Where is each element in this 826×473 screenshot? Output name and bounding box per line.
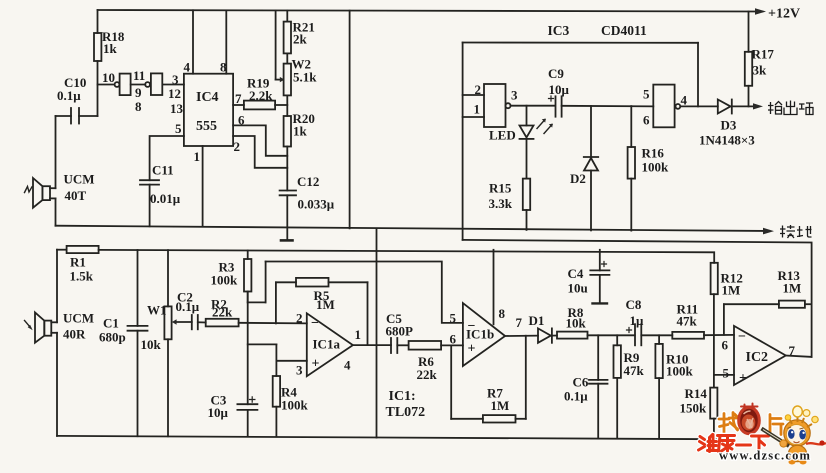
wire IC2 pin5 bbox=[714, 374, 734, 376]
svg-text:8: 8 bbox=[499, 306, 506, 321]
svg-text:UCM: UCM bbox=[63, 311, 94, 326]
label R9 value bbox=[624, 350, 645, 378]
wire left rail lower bbox=[55, 198, 57, 225]
wire gate1 output bbox=[511, 105, 555, 107]
resistor R9 bbox=[614, 335, 621, 438]
svg-text:8: 8 bbox=[135, 99, 142, 114]
capacitor C10 bbox=[56, 108, 98, 124]
svg-text:6: 6 bbox=[722, 338, 729, 353]
resistor R6 bbox=[409, 341, 463, 350]
svg-text:1.5k: 1.5k bbox=[70, 269, 94, 284]
wire IC1a out bbox=[353, 344, 391, 346]
label R7 value bbox=[487, 386, 509, 414]
gate IC3b bbox=[653, 85, 680, 128]
svg-text:UCM: UCM bbox=[64, 172, 95, 187]
svg-text:+: + bbox=[739, 371, 747, 386]
svg-text:40R: 40R bbox=[63, 327, 86, 342]
gate IC3a bbox=[484, 84, 511, 127]
svg-text:1k: 1k bbox=[103, 41, 118, 56]
diode D3 bbox=[718, 100, 763, 114]
label D3 value bbox=[699, 118, 755, 148]
svg-text:1μ: 1μ bbox=[630, 313, 645, 328]
wire IC3 feedback bbox=[463, 42, 698, 44]
wire output net B bbox=[463, 240, 812, 357]
wire IC4 pin7 bbox=[233, 104, 244, 106]
gate G4 bubble bbox=[145, 82, 150, 87]
svg-text:2: 2 bbox=[475, 82, 482, 97]
capacitor C1 bbox=[128, 250, 148, 436]
label R11 value bbox=[677, 302, 699, 329]
label W2 value bbox=[292, 57, 318, 85]
svg-text:C12: C12 bbox=[297, 174, 319, 189]
label R4 value bbox=[281, 385, 309, 413]
svg-text:680p: 680p bbox=[99, 330, 126, 345]
svg-text:3: 3 bbox=[172, 72, 179, 87]
svg-text:47k: 47k bbox=[677, 314, 698, 329]
wire IC1b pin8 bbox=[493, 250, 495, 324]
svg-text:100k: 100k bbox=[281, 398, 309, 413]
svg-text:7: 7 bbox=[235, 91, 242, 106]
resistor R18 bbox=[94, 10, 101, 116]
label IC3 name bbox=[548, 23, 648, 38]
capacitor C11 bbox=[140, 180, 159, 226]
wire IC4 pin8 bbox=[225, 10, 227, 73]
wire bottom left edge lower bbox=[56, 333, 58, 436]
label R8 value bbox=[566, 305, 587, 331]
resistor R14 bbox=[710, 375, 717, 439]
svg-text:1: 1 bbox=[194, 149, 201, 164]
label R1 value bbox=[70, 255, 94, 284]
svg-text:1: 1 bbox=[474, 102, 481, 117]
svg-text:−: − bbox=[738, 330, 746, 345]
label C1 value bbox=[99, 316, 126, 345]
capacitor C12 bbox=[280, 191, 296, 241]
wire bottom ground rail bbox=[57, 436, 716, 439]
wire feedback vertical bbox=[697, 43, 699, 107]
svg-text:10u: 10u bbox=[568, 281, 588, 296]
capacitor C6 bbox=[589, 335, 608, 438]
diode D2 bbox=[584, 106, 598, 230]
label C5 value bbox=[386, 311, 414, 339]
label IC1b pins bbox=[450, 306, 523, 357]
svg-text:100k: 100k bbox=[211, 273, 239, 288]
wire left rail upper bbox=[55, 116, 57, 188]
op-amp IC2 bbox=[734, 326, 786, 385]
svg-text:3k: 3k bbox=[753, 63, 768, 78]
svg-text:TL072: TL072 bbox=[386, 405, 426, 420]
svg-text:100k: 100k bbox=[666, 364, 694, 379]
resistor R16 bbox=[628, 106, 635, 231]
resistor R20 bbox=[284, 116, 291, 191]
gate G3 bbox=[120, 74, 131, 96]
resistor R8 bbox=[557, 332, 635, 339]
diode D1 bbox=[538, 328, 557, 342]
label R16 value bbox=[642, 146, 670, 175]
wire IC4 pin4 bbox=[192, 10, 194, 73]
svg-text:R16: R16 bbox=[642, 146, 665, 161]
wire IC1b out bbox=[505, 335, 538, 337]
wire pin3 jog bbox=[248, 344, 307, 376]
label C3 value bbox=[208, 393, 229, 421]
svg-text:12: 12 bbox=[168, 86, 181, 101]
capacitor C8 bbox=[627, 324, 673, 345]
label R14 value bbox=[680, 386, 708, 416]
svg-text:5.1k: 5.1k bbox=[293, 70, 317, 85]
node 输出端 label bbox=[768, 101, 813, 116]
svg-text:−: − bbox=[311, 316, 319, 331]
svg-text:D3: D3 bbox=[721, 118, 737, 133]
svg-text:1N4148×3: 1N4148×3 bbox=[699, 133, 755, 148]
svg-text:2.2k: 2.2k bbox=[249, 88, 273, 103]
svg-text:C8: C8 bbox=[626, 297, 642, 312]
svg-text:C6: C6 bbox=[573, 375, 589, 390]
label C11 value bbox=[150, 163, 181, 207]
svg-text:www.dzsc.com: www.dzsc.com bbox=[719, 449, 811, 463]
svg-text:10: 10 bbox=[102, 70, 115, 85]
svg-text:13: 13 bbox=[170, 101, 184, 116]
wire gate1 inputs bbox=[463, 43, 484, 240]
svg-text:+12V: +12V bbox=[768, 7, 800, 22]
capacitor C2 bbox=[192, 315, 206, 329]
label UCM40T bbox=[64, 172, 95, 204]
label R5 value bbox=[314, 288, 335, 312]
label IC1 type bbox=[386, 389, 426, 420]
svg-text:2: 2 bbox=[296, 311, 303, 326]
label UCM40R bbox=[63, 311, 94, 342]
svg-text:R17: R17 bbox=[752, 47, 775, 62]
label R21 value bbox=[293, 20, 315, 47]
wire box right edge bbox=[349, 11, 351, 229]
resistor R5 bbox=[276, 278, 368, 345]
capacitor C3 bbox=[237, 397, 257, 436]
node 接地 label bbox=[780, 225, 812, 238]
svg-text:D2: D2 bbox=[570, 171, 586, 186]
svg-text:7: 7 bbox=[516, 315, 523, 330]
label R10 value bbox=[666, 352, 694, 379]
svg-text:11: 11 bbox=[133, 68, 145, 83]
svg-text:6: 6 bbox=[643, 113, 650, 128]
svg-text:1k: 1k bbox=[293, 124, 308, 139]
resistor R12 bbox=[711, 263, 718, 375]
svg-text:1: 1 bbox=[355, 327, 362, 342]
svg-text:6: 6 bbox=[238, 113, 245, 128]
svg-text:IC1b: IC1b bbox=[466, 327, 494, 342]
op-amp IC1b bbox=[463, 303, 505, 366]
svg-text:10k: 10k bbox=[141, 337, 162, 352]
op-amp IC1a bbox=[307, 313, 353, 376]
wire R3 down bbox=[247, 292, 249, 405]
label W1 value bbox=[141, 303, 167, 353]
svg-text:10μ: 10μ bbox=[549, 82, 570, 97]
gate G4 bbox=[151, 73, 162, 95]
svg-text:IC2: IC2 bbox=[746, 350, 769, 365]
watermark mascot bbox=[762, 406, 826, 465]
wire +12V top rail bbox=[98, 8, 767, 15]
svg-text:10μ: 10μ bbox=[208, 405, 229, 420]
label IC4 name bbox=[196, 90, 219, 134]
svg-text:R15: R15 bbox=[489, 181, 512, 196]
label R3 value bbox=[211, 260, 239, 288]
svg-text:0.1μ: 0.1μ bbox=[564, 389, 588, 404]
LED bbox=[520, 106, 553, 179]
wire bottom left edge upper bbox=[56, 250, 58, 323]
label R17 value bbox=[752, 47, 775, 78]
wire gate chain bbox=[98, 84, 184, 86]
svg-text:5: 5 bbox=[175, 121, 182, 136]
potentiometer W2 bbox=[284, 64, 291, 116]
svg-text:W1: W1 bbox=[147, 303, 167, 318]
svg-text:1M: 1M bbox=[491, 398, 510, 413]
capacitor C5 bbox=[391, 338, 409, 353]
resistor R15 bbox=[523, 179, 530, 230]
capacitor C9 bbox=[549, 96, 562, 117]
svg-text:3: 3 bbox=[296, 363, 303, 378]
label R12 value bbox=[721, 271, 743, 298]
svg-text:8: 8 bbox=[220, 60, 227, 75]
resistor R13 bbox=[724, 301, 812, 335]
wire IC4 pin5 bbox=[150, 136, 184, 180]
wire ground interlink bbox=[376, 229, 378, 438]
watermark text 找芯片 bbox=[719, 413, 783, 435]
svg-text:R1: R1 bbox=[70, 255, 86, 270]
svg-text:7: 7 bbox=[789, 343, 796, 358]
wire gate2 output bbox=[680, 105, 718, 107]
svg-text:1M: 1M bbox=[316, 297, 335, 312]
label IC1a pins bbox=[296, 311, 361, 378]
label C12 value bbox=[297, 174, 335, 212]
label R20 value bbox=[293, 111, 315, 139]
svg-text:0.1μ: 0.1μ bbox=[57, 88, 81, 103]
svg-text:0.01μ: 0.01μ bbox=[150, 191, 181, 206]
svg-text:10k: 10k bbox=[566, 316, 587, 331]
svg-text:47k: 47k bbox=[624, 363, 645, 378]
resistor R17 bbox=[745, 12, 752, 107]
svg-text:CD4011: CD4011 bbox=[601, 23, 647, 38]
svg-text:0.1μ: 0.1μ bbox=[176, 299, 200, 314]
wire IC4 pin2 bbox=[233, 136, 287, 168]
transducer UCM40R bbox=[25, 312, 58, 342]
wire bias net bbox=[248, 262, 463, 323]
label C9 value bbox=[548, 66, 570, 97]
label C10 value bbox=[57, 75, 86, 103]
wire W2 wiper bbox=[276, 11, 285, 83]
watermark url www.dzsc.com bbox=[719, 449, 811, 463]
gate G3 bubble bbox=[115, 82, 120, 87]
svg-text:4: 4 bbox=[681, 93, 688, 108]
svg-text:LED: LED bbox=[489, 128, 516, 143]
svg-text:IC3: IC3 bbox=[548, 23, 570, 38]
resistor R1 bbox=[67, 246, 99, 253]
svg-text:3.3k: 3.3k bbox=[489, 196, 513, 211]
svg-text:+: + bbox=[468, 342, 476, 357]
resistor R4 bbox=[273, 376, 280, 436]
resistor R11 bbox=[672, 332, 734, 339]
watermark text 维库一下 bbox=[699, 435, 769, 453]
svg-text:22k: 22k bbox=[212, 305, 233, 320]
svg-text:40T: 40T bbox=[65, 188, 87, 203]
label R15 value bbox=[489, 181, 513, 212]
label R19 value bbox=[247, 76, 273, 104]
svg-text:IC1a: IC1a bbox=[313, 337, 341, 352]
svg-text:R14: R14 bbox=[685, 386, 708, 401]
svg-text:0.033μ: 0.033μ bbox=[298, 197, 335, 212]
resistor R19 bbox=[244, 101, 287, 110]
wire IC2 out bbox=[786, 356, 812, 357]
wire IC4 pin1 bbox=[202, 146, 204, 226]
svg-text:150k: 150k bbox=[680, 401, 708, 416]
label R18 value bbox=[102, 29, 125, 56]
wire C9 to gate2 bbox=[562, 105, 654, 108]
wire bottom top rail bbox=[57, 250, 714, 263]
svg-text:555: 555 bbox=[196, 119, 217, 134]
watermark magnifier bbox=[739, 404, 760, 434]
svg-text:100k: 100k bbox=[642, 160, 670, 175]
resistor R7 bbox=[451, 336, 526, 423]
svg-text:9: 9 bbox=[135, 85, 142, 100]
label R2 value bbox=[211, 297, 233, 320]
svg-text:22k: 22k bbox=[417, 367, 438, 382]
svg-text:5: 5 bbox=[643, 87, 650, 102]
svg-text:+: + bbox=[312, 357, 320, 372]
label R6 value bbox=[417, 354, 438, 382]
wire ground rail bbox=[56, 226, 775, 235]
wire IC4 pin6 bbox=[233, 125, 287, 155]
resistor R21 bbox=[284, 11, 291, 64]
svg-text:6: 6 bbox=[450, 332, 457, 347]
svg-text:3: 3 bbox=[511, 88, 518, 103]
capacitor C4 bbox=[590, 250, 609, 304]
svg-text:1M: 1M bbox=[783, 281, 802, 296]
potentiometer W1 bbox=[164, 250, 191, 436]
svg-text:2: 2 bbox=[234, 139, 241, 154]
svg-text:C1: C1 bbox=[103, 316, 119, 331]
svg-text:5: 5 bbox=[450, 311, 457, 326]
svg-text:IC4: IC4 bbox=[196, 90, 219, 105]
svg-text:C9: C9 bbox=[548, 66, 564, 81]
transducer UCM40T bbox=[25, 178, 56, 208]
svg-text:2k: 2k bbox=[293, 32, 308, 47]
label C6 value bbox=[564, 375, 589, 404]
svg-text:4: 4 bbox=[184, 60, 191, 75]
op-amp U-IC4 555 box bbox=[184, 74, 233, 146]
svg-text:IC1:: IC1: bbox=[389, 389, 416, 404]
svg-text:1M: 1M bbox=[722, 283, 741, 298]
label IC2 pins bbox=[722, 330, 796, 387]
resistor R3 bbox=[244, 251, 251, 303]
label C8 value bbox=[626, 297, 645, 328]
svg-text:4: 4 bbox=[344, 358, 351, 373]
label C2 value bbox=[176, 290, 200, 315]
label C4 value bbox=[568, 266, 588, 296]
label R13 value bbox=[778, 268, 802, 296]
svg-text:D1: D1 bbox=[529, 313, 545, 328]
svg-text:C4: C4 bbox=[568, 266, 584, 281]
svg-text:680P: 680P bbox=[386, 324, 414, 339]
resistor R10 bbox=[655, 335, 662, 438]
svg-text:5: 5 bbox=[723, 366, 730, 381]
svg-text:C11: C11 bbox=[152, 163, 174, 178]
resistor R2 bbox=[206, 319, 307, 327]
